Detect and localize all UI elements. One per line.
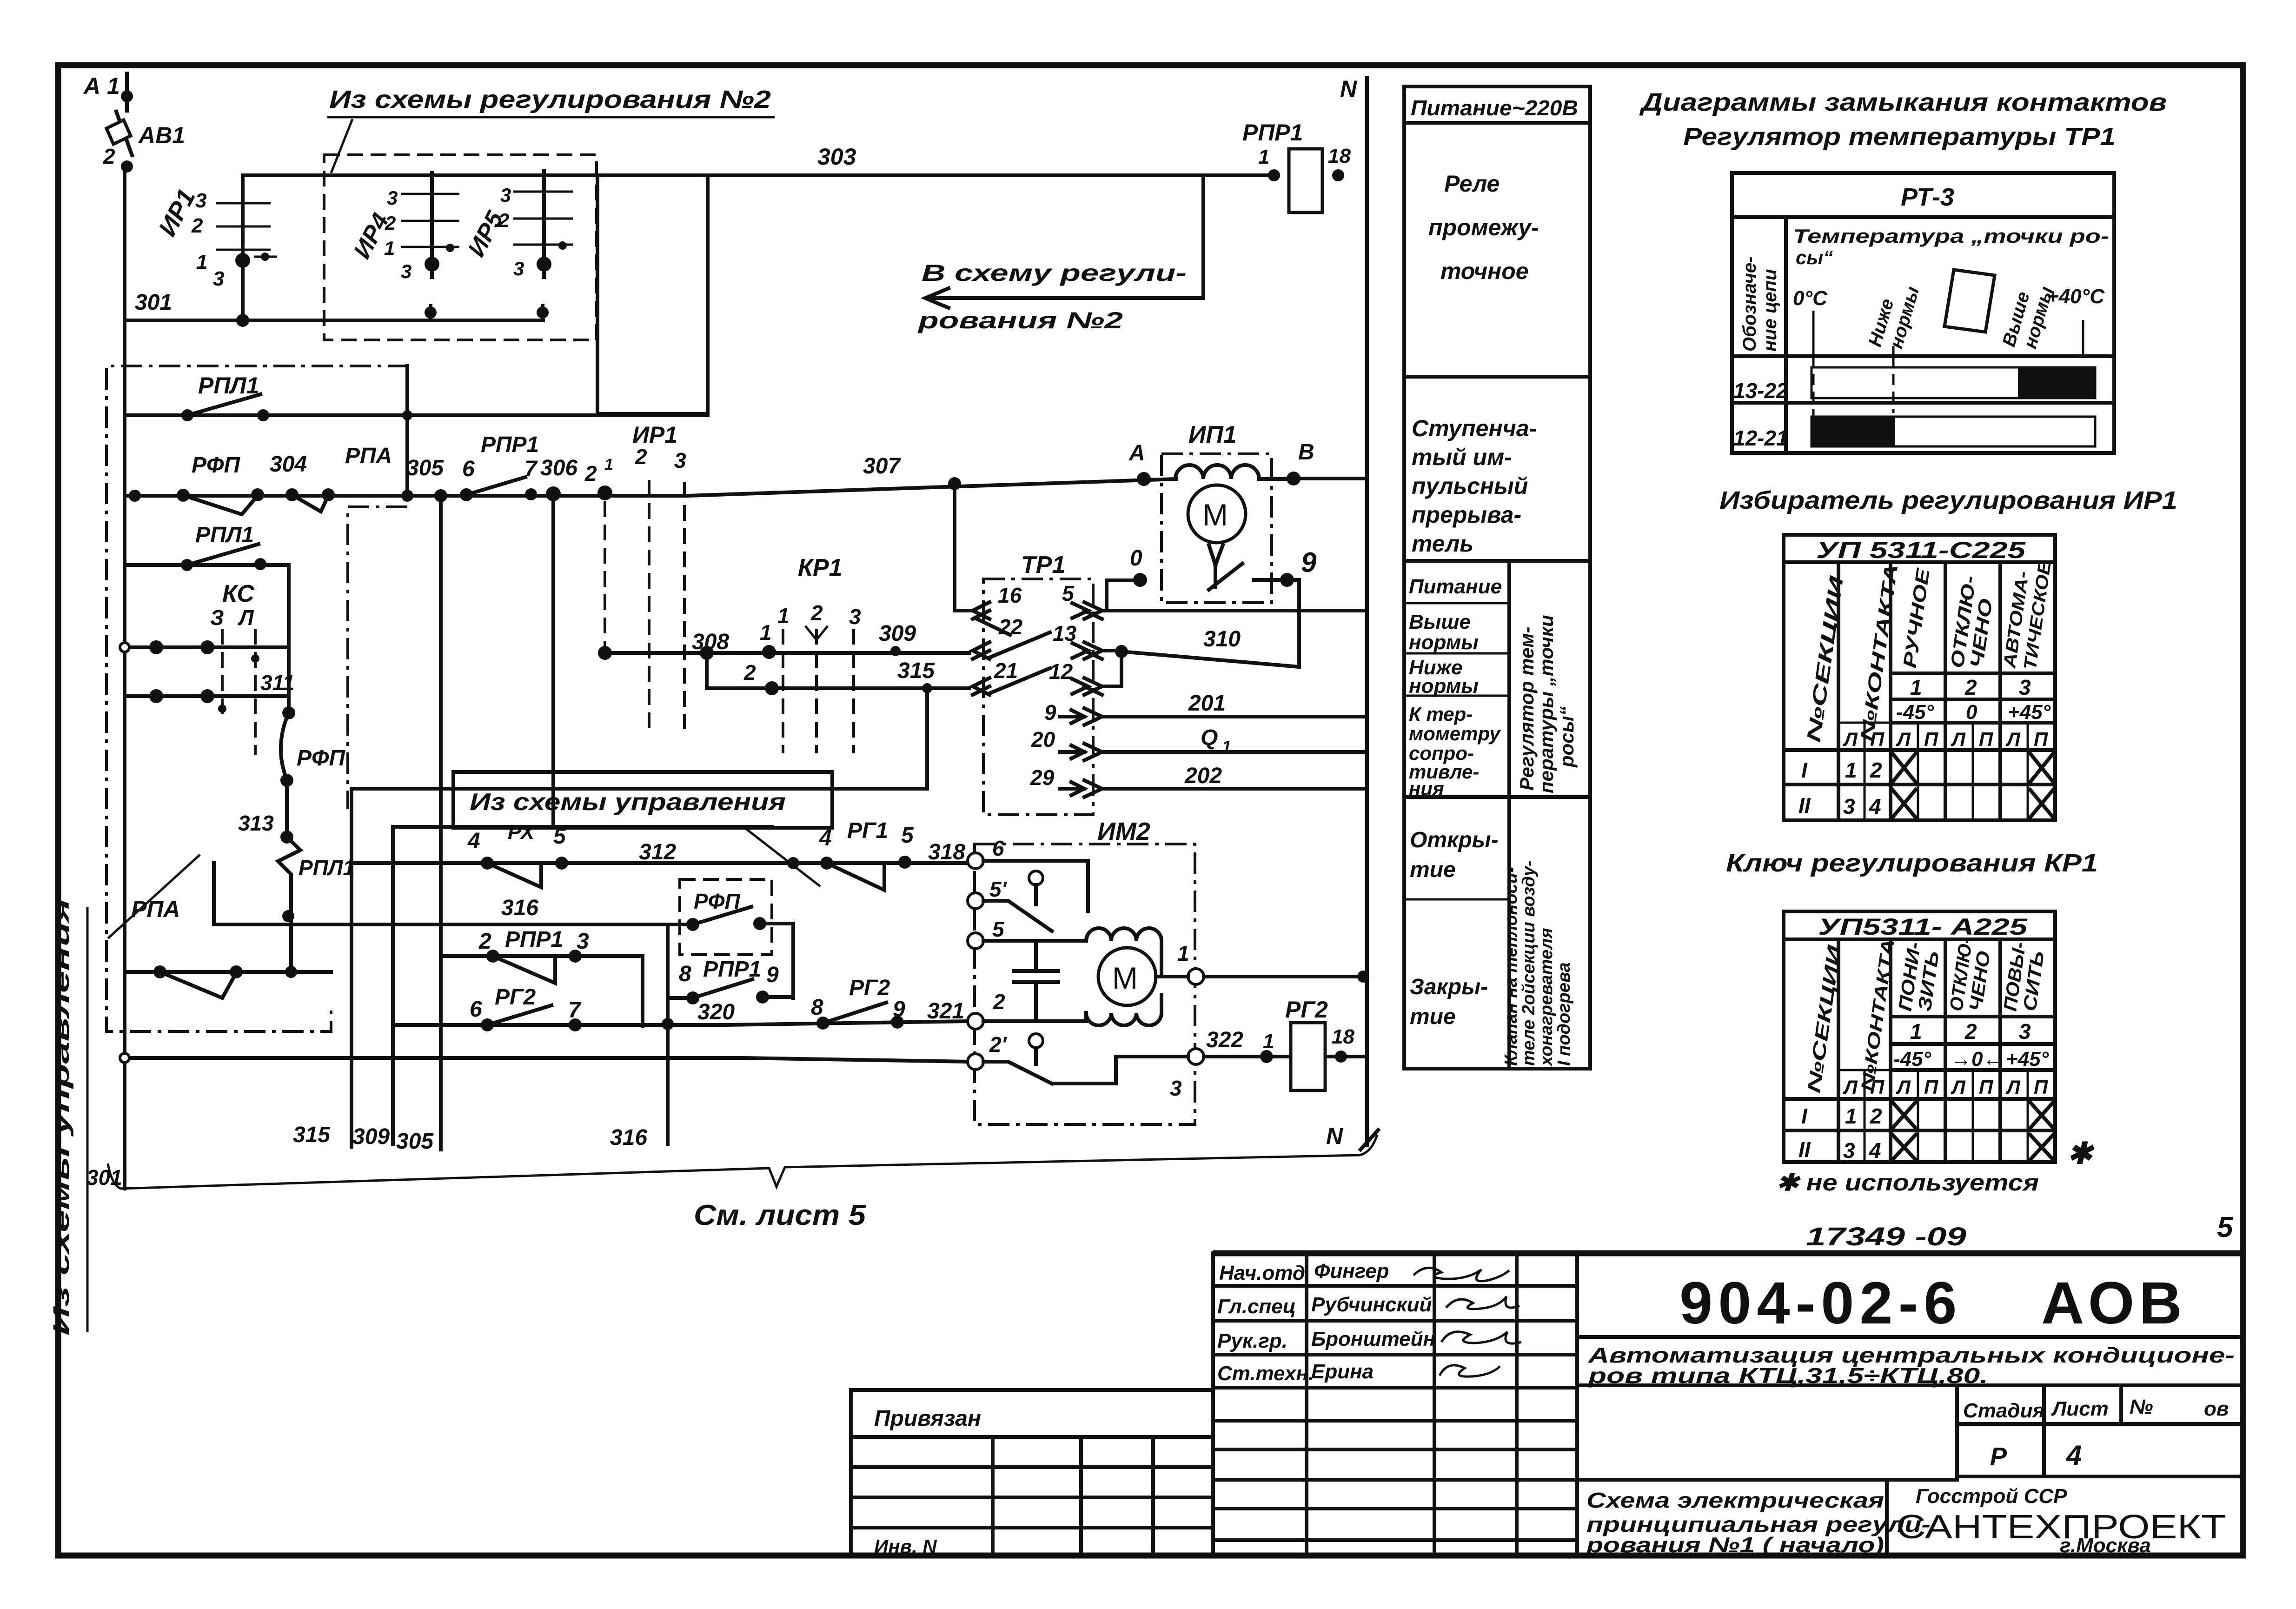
dash-dot boundary inner [348,507,407,809]
svg-text:М: М [1112,961,1138,995]
svg-text:1: 1 [1845,758,1857,782]
heading: contact closing diagrams [1639,88,2167,151]
svg-text:306: 306 [540,456,577,480]
svg-text:3: 3 [387,187,398,209]
svg-text:РХ: РХ [508,821,536,844]
svg-text:пульсный: пульсный [1412,473,1528,499]
leader to left caption [108,855,200,938]
title block document code 904-02-6 AOB [1577,1270,2243,1337]
svg-text:5: 5 [1062,581,1075,605]
junction 2-1 on IR1 column [597,485,612,500]
wire to sheet5 via vertical 315 [352,789,927,1147]
svg-text:тие: тие [1410,858,1456,882]
IM2 dash-dot box [975,844,1195,1124]
svg-text:3: 3 [401,260,411,282]
svg-text:Ступенча-: Ступенча- [1412,415,1537,441]
wire 301 horizontal rail [125,319,543,322]
svg-text:-45°: -45° [1893,1048,1931,1070]
svg-text:1: 1 [1910,675,1922,699]
svg-text:РПА: РПА [345,444,392,468]
svg-text:17349 -09: 17349 -09 [1806,1222,1966,1251]
svg-text:Обозначе-: Обозначе- [1739,257,1760,352]
svg-text:-45°: -45° [1896,701,1934,724]
selector IR1 contact column [153,175,277,327]
svg-text:9: 9 [893,997,905,1022]
svg-text:РФП: РФП [297,746,345,771]
wire rail RG2 6-7 and 320 [393,976,968,1031]
svg-text:201: 201 [1188,691,1226,716]
svg-text:29: 29 [1030,765,1055,790]
svg-text:Р: Р [1990,1443,2007,1470]
svg-text:312: 312 [639,840,676,864]
svg-text:РГ1: РГ1 [847,818,888,843]
svg-text:Питание: Питание [1409,575,1502,598]
svg-text:тель: тель [1412,531,1473,557]
svg-text:316: 316 [501,896,538,920]
svg-text:Регулятор температуры ТР1: Регулятор температуры ТР1 [1683,123,2116,151]
svg-text:РТ-3: РТ-3 [1901,183,1954,211]
svg-text:П: П [1979,728,1993,750]
svg-text:311: 311 [260,671,294,695]
svg-text:РПЛ1: РПЛ1 [198,372,259,399]
svg-text:ИП1: ИП1 [1188,421,1237,448]
svg-text:рования №2: рования №2 [917,307,1123,333]
svg-text:КС: КС [222,580,255,607]
svg-text:301: 301 [135,290,172,315]
wire 303 [243,173,1274,177]
svg-text:N: N [1340,76,1357,102]
svg-text:307: 307 [863,454,901,479]
svg-text:2: 2 [743,660,756,685]
IP1 terminals [1128,440,1317,667]
svg-text:П: П [2034,1076,2048,1098]
svg-text:202: 202 [1184,764,1222,788]
contact RPR1 6-7 on main rail [460,432,539,501]
svg-text:7: 7 [524,457,538,481]
wire rail to IM2 2' [120,1053,968,1063]
IM2 terminal 5' [968,893,983,909]
wire rail y893 with contact RPL1 [125,372,708,421]
svg-text:РГ2: РГ2 [495,985,536,1010]
vertical 305 long [439,496,443,1150]
svg-text:пературы „точки: пературы „точки [1535,615,1557,793]
N line [1326,76,1378,1150]
svg-text:г.Москва: г.Москва [2060,1534,2151,1557]
svg-text:А 1: А 1 [83,73,120,99]
svg-text:Л: Л [1951,1076,1966,1098]
svg-text:3: 3 [849,605,861,629]
IM2 terminal 2 [968,1013,983,1029]
svg-text:Питание~220В: Питание~220В [1411,96,1578,120]
svg-text:нормы: нормы [1409,631,1479,654]
svg-text:Из схемы регулирования №2: Из схемы регулирования №2 [329,86,771,113]
svg-text:2: 2 [810,601,823,625]
svg-text:18: 18 [1332,1025,1354,1048]
junction on 307 above TR1 [948,477,961,490]
heading: from regulation scheme 2 [327,86,775,173]
svg-text:+45°: +45° [2008,701,2051,724]
svg-text:РПЛ1: РПЛ1 [195,523,254,547]
wire rail RPR1 8-9 y2146 [668,957,793,1004]
title block organization [1896,1485,2226,1557]
svg-text:3: 3 [1843,794,1855,818]
svg-text:Госстрой ССР: Госстрой ССР [1916,1485,2067,1508]
TR1 left pin arrow 21 [973,658,1050,695]
wire 201 [1102,715,1367,718]
svg-text:росы“: росы“ [1556,706,1578,768]
svg-text:КР1: КР1 [798,554,843,581]
svg-text:1: 1 [1222,737,1231,756]
dash-dot boundary left [106,366,409,1031]
IM2 terminal 5 [968,933,983,949]
svg-text:4: 4 [819,826,832,851]
svg-text:АОВ: АОВ [2041,1270,2187,1336]
svg-text:П: П [1924,728,1938,750]
svg-text:+40°С: +40°С [2047,285,2105,308]
svg-text:Л: Л [1843,1076,1858,1098]
svg-text:8: 8 [811,995,823,1020]
svg-text:2: 2 [103,144,115,168]
IM2 terminal 1 [1188,969,1204,984]
svg-text:УП5311- А225: УП5311- А225 [1818,914,2028,940]
svg-text:I: I [1801,758,1808,782]
svg-text:7: 7 [568,998,582,1023]
svg-text:Л: Л [238,605,254,630]
svg-text:9: 9 [766,963,779,987]
svg-text:304: 304 [270,452,307,477]
svg-text:теле 2ойсекции возду-: теле 2ойсекции возду- [1519,860,1539,1066]
circuit breaker AB1 [103,112,185,173]
svg-text:4: 4 [1869,1138,1881,1163]
svg-text:ние цепи: ние цепи [1760,269,1780,352]
svg-text:В: В [1298,440,1314,465]
svg-text:См. лист 5: См. лист 5 [694,1199,867,1231]
selector table UP5311-C225 [1784,535,2055,820]
dashed box RFP [680,879,772,955]
svg-text:Выше: Выше [1409,611,1471,633]
svg-text:ИР1: ИР1 [632,422,677,448]
svg-text:Откры-: Откры- [1410,828,1499,852]
title block drawing name [1577,1480,1957,1557]
svg-text:П: П [1924,1076,1938,1098]
svg-text:Из схемы управления: Из схемы управления [49,898,74,1336]
svg-text:322: 322 [1206,1028,1243,1052]
contact RG1 4-5 [819,818,965,890]
svg-text:1: 1 [777,604,790,628]
svg-text:904-02-6: 904-02-6 [1679,1270,1962,1336]
jog from 308 to wire 315 [707,653,772,688]
svg-text:ров типа КТЦ,31,5÷КТЦ,80.: ров типа КТЦ,31,5÷КТЦ,80. [1587,1363,1988,1388]
svg-text:321: 321 [927,999,964,1024]
svg-text:0: 0 [1966,701,1977,724]
IM2 terminal 3 [1188,1049,1204,1064]
svg-text:М: М [1202,498,1228,532]
dashed box around IR4 IR5 [324,155,597,340]
svg-text:0: 0 [1130,546,1142,571]
svg-text:П: П [1979,1076,1993,1098]
svg-text:Из схемы управления: Из схемы управления [470,789,786,816]
svg-text:Л: Л [1896,1076,1911,1098]
svg-text:нормы: нормы [1409,675,1479,698]
svg-text:2: 2 [1870,1104,1882,1128]
svg-text:1: 1 [1258,146,1269,168]
svg-text:прерыва-: прерыва- [1412,502,1521,528]
left rotated caption: from control scheme [49,898,87,1336]
wire rail RPR1 2-3 y2056 [441,927,643,1026]
legend: intermediate relay [1428,171,1539,284]
svg-text:РПР1: РПР1 [1242,120,1303,146]
svg-text:318: 318 [928,840,965,864]
svg-text:1: 1 [760,620,772,645]
svg-text:2: 2 [1964,1019,1977,1044]
wire 322 with relay coil RG2 [1204,997,1367,1090]
svg-text:2: 2 [385,212,396,234]
svg-text:ТР1: ТР1 [1021,552,1065,578]
selector IR5 contact column [463,171,573,320]
svg-text:П: П [1870,728,1885,750]
IM2 terminal 2' [968,1054,983,1070]
IP1 motor [1175,465,1286,590]
svg-text:Фингер: Фингер [1314,1260,1389,1283]
RT-3 table [1732,173,2114,453]
svg-text:13: 13 [1053,621,1077,645]
brace see sheet 5 [108,1135,1377,1231]
svg-text:Привязан: Привязан [874,1406,981,1431]
svg-text:Л: Л [2005,728,2021,750]
svg-text:Л: Л [1896,728,1911,750]
svg-text:6: 6 [462,457,475,481]
svg-text:313: 313 [238,811,274,835]
svg-text:Q: Q [1201,725,1218,750]
vertical link x876 [405,366,409,496]
IP1 dash-dot box [1161,454,1272,603]
svg-text:Рубчинский: Рубчинский [1311,1293,1432,1316]
vertical x621 [287,565,291,713]
svg-text:3: 3 [2019,1019,2031,1044]
terminal A1 [83,73,133,111]
IM2 internals [983,861,1188,1084]
bottom node labels 315 309 305 316 [293,1025,647,1154]
svg-text:ИМ2: ИМ2 [1097,818,1150,845]
legend rows: питание, выше нормы, ниже нормы, к термометру [1409,575,1502,799]
asterisk note [1776,1137,2095,1196]
key KR1 dashed stems [777,554,861,753]
svg-text:309: 309 [352,1124,390,1149]
TR1 dash-dot box [983,579,1093,815]
svg-text:1: 1 [1845,1104,1857,1128]
svg-text:2: 2 [1870,758,1882,782]
svg-text:РПР1: РПР1 [505,927,563,952]
svg-text:21: 21 [994,658,1018,683]
legend column table [1404,86,1590,1069]
svg-text:РФП: РФП [192,453,240,478]
wire rail RPA y2090 [125,896,331,998]
legend: открытие, закрытие [1410,828,1499,1029]
svg-text:0°С: 0°С [1793,287,1828,310]
svg-text:9: 9 [1044,700,1056,725]
wire 308 rail [598,630,729,660]
svg-text:5': 5' [989,877,1008,901]
key table UP5311-A225 [1784,911,2055,1163]
svg-text:Закры-: Закры- [1410,975,1488,999]
svg-text:2: 2 [635,445,647,469]
svg-text:Ерина: Ерина [1311,1360,1374,1383]
svg-text:12: 12 [1049,659,1073,684]
svg-text:РПЛ1: РПЛ1 [299,856,355,880]
svg-text:Реле: Реле [1444,171,1500,197]
svg-text:2: 2 [191,214,203,237]
svg-text:5: 5 [2217,1211,2234,1243]
svg-text:3: 3 [500,184,511,206]
svg-text:320: 320 [697,1000,735,1024]
svg-text:5: 5 [553,824,566,849]
svg-text:Нач.отд: Нач.отд [1219,1262,1305,1284]
svg-text:310: 310 [1203,627,1241,652]
svg-text:12-21: 12-21 [1733,426,1788,450]
svg-text:16: 16 [998,583,1022,607]
svg-text:3: 3 [213,267,224,290]
svg-text:2': 2' [989,1032,1008,1057]
svg-text:2: 2 [993,990,1005,1014]
svg-text:3: 3 [577,929,589,954]
svg-text:сы“: сы“ [1796,246,1833,268]
legend rotated: valve on heat carrier [1501,860,1574,1067]
title block signatures [1217,1260,1521,1385]
contact RPA on main rail [285,444,392,512]
svg-text:Стадия: Стадия [1963,1399,2044,1422]
svg-text:+45°: +45° [2006,1048,2049,1070]
svg-text:2: 2 [1964,675,1977,699]
wire 307 from IP1 B to N [1286,477,1367,480]
svg-text:Клапан на теплоноси-: Клапан на теплоноси- [1501,867,1521,1066]
svg-text:№: № [2130,1396,2153,1418]
svg-text:1: 1 [384,237,395,259]
selector IR1 dashed verticals [605,422,686,729]
svg-text:✱ не используется: ✱ не используется [1776,1170,2039,1196]
selector IR4 contact column [348,173,459,320]
contact RFP normally-closed vertical with wire 313 [238,706,355,972]
svg-text:П: П [2034,728,2048,750]
svg-text:Рук.гр.: Рук.гр. [1217,1330,1287,1352]
svg-text:2: 2 [478,929,491,954]
svg-text:3: 3 [195,189,206,212]
TR1 left pin arrow 16 [973,583,1022,635]
svg-text:6: 6 [470,997,482,1022]
svg-text:303: 303 [817,144,856,170]
wire from IM2 pin1 to N [1204,975,1367,978]
svg-text:1: 1 [1910,1019,1922,1044]
legend: stepped impulse interrupter [1412,415,1537,557]
svg-text:9: 9 [1301,547,1317,578]
svg-text:316: 316 [610,1125,647,1150]
contact RFP on main rail [177,452,307,514]
svg-text:22: 22 [998,615,1023,639]
svg-text:1: 1 [196,251,207,273]
svg-text:1: 1 [1177,941,1189,965]
svg-text:Л: Л [1843,728,1858,750]
wire branch to regulation scheme 2 [917,175,1203,333]
vertical from 315 node down [925,688,929,789]
svg-text:АВ1: АВ1 [138,122,185,148]
svg-text:хонагревателя: хонагревателя [1537,928,1556,1067]
relay coil RPR1 [1242,120,1351,213]
wire 316 rail [214,863,680,924]
svg-text:промежу-: промежу- [1428,214,1539,240]
title block frame [1213,1253,2243,1556]
svg-text:2: 2 [498,209,509,231]
wire 309 rail to TR1 [707,620,969,659]
svg-text:4: 4 [2066,1440,2082,1471]
wire rail y1392 [120,640,289,654]
wire Q1 [1102,750,1367,754]
wire rail RH y1855 [352,821,967,887]
svg-text:4: 4 [467,829,480,853]
svg-text:рования №1 ( начало): рования №1 ( начало) [1585,1533,1884,1557]
svg-text:3: 3 [1843,1138,1855,1163]
svg-text:Бронштейн: Бронштейн [1311,1328,1435,1350]
svg-text:тый им-: тый им- [1412,444,1512,470]
wire 315 rail to TR1 [743,658,969,695]
svg-text:I подогрева: I подогрева [1554,963,1574,1066]
svg-text:РФП: РФП [694,889,741,913]
svg-text:Л: Л [2005,1076,2021,1098]
svg-text:Инв. N: Инв. N [874,1536,937,1557]
privyazan block [851,1390,1213,1557]
svg-text:1: 1 [604,456,613,473]
svg-text:В схему регули-: В схему регули- [922,260,1187,286]
svg-text:2: 2 [584,461,597,485]
svg-text:Температура „точки ро-: Температура „точки ро- [1793,225,2109,247]
svg-text:Регулятор тем-: Регулятор тем- [1516,627,1538,791]
svg-text:3: 3 [674,448,686,472]
svg-text:II: II [1798,1137,1811,1162]
svg-text:20: 20 [1031,727,1055,751]
svg-text:II: II [1798,793,1811,818]
svg-text:тие: тие [1410,1004,1456,1029]
svg-text:Избиратель регулирования ИР1: Избиратель регулирования ИР1 [1719,486,2177,514]
wire stub from 303 down at x1522 [597,175,708,414]
svg-text:Диаграммы замыкания контактов: Диаграммы замыкания контактов [1639,88,2167,116]
svg-text:13-22: 13-22 [1733,379,1788,403]
svg-text:4: 4 [1869,794,1881,818]
svg-text:3: 3 [513,258,524,279]
wire rail y1215 with contact RPL1 second [125,523,289,571]
title block stage sheet row [1957,1388,2243,1476]
svg-text:308: 308 [692,630,729,654]
key KS with dashed stems [210,580,294,755]
svg-text:ния: ния [1409,778,1444,799]
svg-text:Гл.спец: Гл.спец [1217,1295,1296,1318]
contact RFP in box [680,889,793,998]
svg-text:РГ2: РГ2 [1285,997,1328,1023]
svg-text:Л: Л [1951,728,1966,750]
svg-text:305: 305 [406,456,444,480]
svg-text:6: 6 [992,836,1004,860]
svg-text:З: З [210,605,224,630]
svg-text:РГ2: РГ2 [849,976,890,1000]
svg-text:3: 3 [1170,1076,1182,1100]
svg-text:УП 5311-С225: УП 5311-С225 [1816,537,2026,563]
svg-text:РПР1: РПР1 [481,432,539,457]
vertical from node 306 [551,494,555,827]
vertical 316 long [666,924,670,1144]
TR1 left pin arrow 22 [973,615,1050,659]
title block object name [1577,1343,2243,1388]
svg-text:ов: ов [2204,1397,2229,1420]
IM2 terminal 6 [968,853,983,869]
svg-text:→0←: →0← [1951,1048,2003,1070]
bus 301 vertical [123,166,126,1189]
